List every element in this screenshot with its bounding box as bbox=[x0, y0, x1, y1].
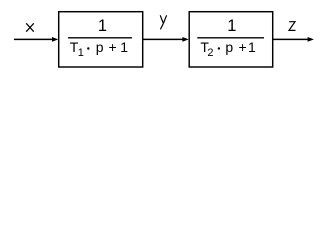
svg-text:+: + bbox=[239, 39, 247, 55]
arrowhead output bbox=[308, 37, 314, 42]
svg-text:1: 1 bbox=[248, 39, 256, 55]
wire: output signal line bbox=[273, 38, 309, 40]
svg-text:2: 2 bbox=[207, 47, 213, 59]
block U2 multiplication dot bbox=[218, 47, 220, 49]
block U1 rectangle bbox=[59, 12, 143, 67]
svg-text:1: 1 bbox=[78, 47, 84, 59]
block U1 fraction bar bbox=[68, 37, 132, 39]
svg-text:p: p bbox=[225, 39, 233, 55]
node z label bbox=[289, 22, 296, 31]
arrowhead into block U2 bbox=[182, 37, 188, 42]
block U1 multiplication dot bbox=[87, 47, 89, 49]
svg-text:+: + bbox=[109, 39, 117, 55]
svg-text:1: 1 bbox=[227, 17, 236, 35]
node y label bbox=[160, 15, 166, 29]
block U2 fraction bar bbox=[197, 37, 264, 39]
wire: input signal line bbox=[14, 38, 54, 40]
block U2 rectangle bbox=[189, 12, 273, 67]
svg-text:1: 1 bbox=[98, 17, 107, 35]
arrowhead into block U1 bbox=[52, 37, 58, 42]
svg-text:1: 1 bbox=[120, 39, 128, 55]
node x label bbox=[26, 23, 34, 31]
wire: block U1 to block U2 bbox=[143, 38, 184, 40]
svg-text:p: p bbox=[96, 39, 104, 55]
